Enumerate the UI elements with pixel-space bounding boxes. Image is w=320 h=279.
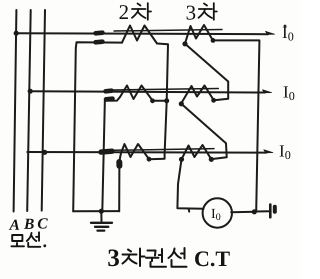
node CT3 secondary right xyxy=(147,157,152,162)
wire row2 winding axis xyxy=(113,89,218,91)
CT3 tertiary winding 3차 xyxy=(182,145,212,159)
node row2 tap on phase B xyxy=(28,89,33,94)
node CT3 tertiary right xyxy=(209,157,214,162)
polarity mark row1 primary xyxy=(96,30,103,35)
wire secondary common bottom bus xyxy=(73,210,119,212)
label 2차 xyxy=(120,5,128,19)
meter M I0 circle xyxy=(203,198,232,227)
node row1 tap on phase A xyxy=(14,31,19,36)
차 caption xyxy=(128,250,131,252)
bus phase A vertical xyxy=(14,10,17,212)
label I0 meter xyxy=(212,209,221,220)
polarity mark row2 secondary lead xyxy=(106,96,113,101)
ground symbol xyxy=(91,223,112,231)
node CT1 tertiary left xyxy=(182,41,187,46)
label I0 row2 xyxy=(284,86,295,100)
선 caption xyxy=(169,249,175,259)
모 xyxy=(12,235,22,241)
wire CT1 tertiary right to meter return xyxy=(213,40,259,211)
arrow row3 I0 xyxy=(264,150,273,153)
wire row3 winding axis xyxy=(114,149,214,151)
earth tick right xyxy=(273,207,277,212)
hangul 차 top xyxy=(132,3,151,20)
label I0 row3 xyxy=(280,145,291,159)
CT3 secondary winding 2차 xyxy=(121,144,149,159)
polarity mark row2 primary xyxy=(106,88,112,93)
bus phase B vertical xyxy=(27,10,31,211)
node meter return junction xyxy=(252,209,257,214)
CT2 secondary winding 2차 xyxy=(120,86,152,101)
hangul 모선 label xyxy=(11,232,40,247)
arrow row1 I0 xyxy=(266,31,275,34)
선 xyxy=(27,233,32,241)
polarity mark row3 primary xyxy=(101,148,112,154)
wire CT1 secondary left lead xyxy=(73,42,122,211)
node CT3 tertiary left xyxy=(179,157,184,162)
wire row1 winding axis xyxy=(114,30,222,32)
period after 모선 xyxy=(43,244,46,247)
polarity mark row3 secondary lead xyxy=(116,162,122,166)
earth bar right xyxy=(269,205,272,218)
wire diagonal CT1 tertiary left to CT2 tertiary right xyxy=(185,44,228,101)
node CT2 tertiary left xyxy=(179,101,184,106)
wire CT2 secondary left lead xyxy=(102,97,120,211)
wire CT3 secondary left lead xyxy=(119,153,121,211)
wire to right earth xyxy=(256,210,270,212)
wire CT1 secondary right lead down to common xyxy=(149,44,168,160)
wire CT3 tertiary left down to meter xyxy=(177,159,203,209)
권 caption xyxy=(148,251,156,256)
label I0 row1 xyxy=(283,27,294,41)
speck artifact xyxy=(284,25,287,28)
node secondary common at row2 xyxy=(164,98,169,103)
polarity mark row1 secondary lead xyxy=(96,39,103,44)
node CT2 tertiary right xyxy=(211,98,216,103)
label A B C xyxy=(9,218,48,230)
node row3 tap on phase C xyxy=(42,150,47,155)
caption 3 차권선 C.T xyxy=(108,249,119,266)
arrow row2 I0 xyxy=(263,90,272,93)
CT1 tertiary winding 3차 xyxy=(185,25,213,43)
wire diagonal CT2 tertiary left to CT3 tertiary right xyxy=(181,104,226,159)
node CT2 secondary right xyxy=(150,98,155,103)
wire CT2 secondary right lead xyxy=(153,100,167,102)
wire meter right to return xyxy=(231,211,256,214)
node ground junction xyxy=(99,209,104,214)
bus phase C vertical xyxy=(42,10,45,211)
CT2 tertiary winding 3차 xyxy=(181,86,214,104)
wire row3 primary xyxy=(27,151,266,154)
label 3차 xyxy=(187,6,196,20)
wire row2 primary xyxy=(30,91,265,92)
node CT1 tertiary right xyxy=(211,38,216,43)
ground stem xyxy=(100,211,102,222)
wire row1 primary xyxy=(16,33,268,34)
hangul 차 top right xyxy=(199,3,217,20)
CT1 secondary winding 2차 xyxy=(122,26,157,44)
wire tick artifact xyxy=(188,209,191,212)
